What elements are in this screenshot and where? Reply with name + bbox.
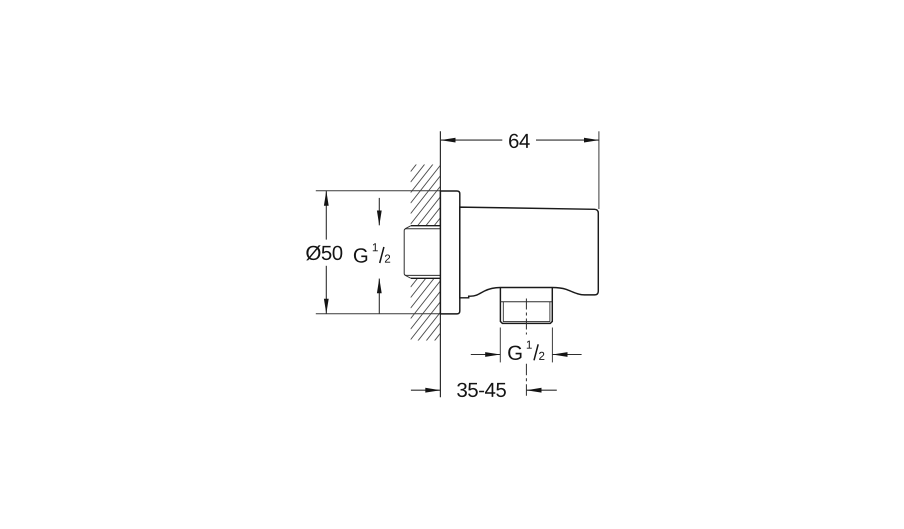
G 1/2 outlet: left stub and arrowhead [471, 354, 501, 356]
escutcheon wall plate (side view) [440, 191, 459, 314]
dimension 64: right arrowhead [584, 138, 599, 143]
outlet nipple [500, 288, 552, 324]
diameter 50: bottom arrowhead [324, 299, 329, 314]
G 1/2 wall thread: label [354, 243, 390, 263]
dimension 35-45: value label [457, 383, 506, 397]
wall hatching [411, 133, 441, 371]
G 1/2 outlet: left extension line [499, 328, 501, 363]
wall face line [439, 131, 441, 397]
G 1/2 wall thread: upper stub and arrowhead [378, 198, 380, 225]
dimension 35-45: dimension line right part with arrowhead [526, 389, 556, 391]
diameter 50: bottom extension line [316, 313, 441, 315]
dimension 64: dimension line [440, 139, 502, 141]
in-wall thread socket [404, 226, 440, 279]
G 1/2 outlet: right extension line [551, 328, 553, 363]
outlet centerline [525, 299, 527, 335]
diameter 50: dimension line [325, 191, 327, 240]
dimension 64: left arrowhead [440, 138, 455, 143]
dimension 64: right extension line [598, 131, 600, 209]
elbow body (side view) [460, 207, 599, 298]
G 1/2 outlet: right stub and arrowhead [552, 354, 581, 356]
dimension 64: value label [509, 134, 530, 148]
dimension 35-45: dimension line left part with arrowhead [411, 389, 441, 391]
diameter 50: value label [306, 245, 342, 260]
G 1/2 wall thread: lower stub and arrowhead [378, 279, 380, 314]
diameter 50: top arrowhead [324, 191, 329, 206]
G 1/2 outlet: label [508, 341, 544, 361]
diameter 50: top extension line [316, 190, 441, 192]
